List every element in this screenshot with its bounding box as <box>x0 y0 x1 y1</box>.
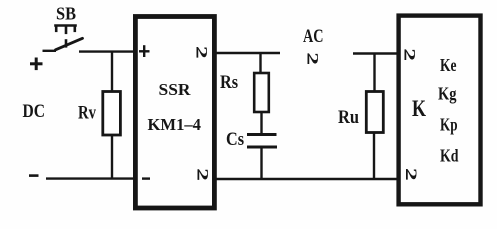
svg-text:K: K <box>412 96 426 121</box>
svg-text:Cs: Cs <box>226 130 244 150</box>
node: plus terminal <box>30 58 43 71</box>
svg-text:Kd: Kd <box>440 146 459 166</box>
wire: Rv top stem <box>111 52 113 92</box>
wire: Rs top stem <box>259 53 261 72</box>
svg-text:2: 2 <box>193 46 211 59</box>
resistor Ru <box>366 92 383 133</box>
svg-text:AC: AC <box>303 26 324 47</box>
resistor Rv <box>103 92 121 136</box>
wire: Rv bottom stem <box>111 135 113 179</box>
svg-text:Rv: Rv <box>78 104 97 124</box>
SSR module box KM1-4 <box>135 17 214 209</box>
resistor Rs <box>254 73 269 112</box>
wire: switch to SSR + terminal <box>79 50 135 52</box>
svg-text:KM1–4: KM1–4 <box>148 115 202 134</box>
svg-text:Ke: Ke <box>440 55 457 75</box>
svg-text:DC: DC <box>23 101 46 122</box>
wire: Cs bottom stem <box>260 148 262 179</box>
svg-text:SB: SB <box>56 4 76 24</box>
wire: Ru bottom stem <box>373 132 375 179</box>
capacitor Cs top plate <box>247 133 277 136</box>
svg-text:Kg: Kg <box>438 84 457 104</box>
svg-text:2: 2 <box>194 168 212 181</box>
pin + inside SSR <box>139 45 150 57</box>
capacitor Cs bottom plate <box>247 146 277 149</box>
pin - inside SSR <box>142 177 150 179</box>
wire: left stub to switch <box>43 50 57 52</box>
node: minus terminal <box>29 174 39 177</box>
wire: Ru top stem <box>373 54 375 92</box>
wire: Rs to Cs <box>260 112 262 134</box>
wire: bottom left <box>46 177 136 179</box>
switch SB lever (moving contact) <box>56 38 83 50</box>
svg-text:2: 2 <box>402 168 420 181</box>
switch SB pushbutton actuator <box>56 26 76 47</box>
svg-text:2: 2 <box>304 52 322 65</box>
svg-text:SSR: SSR <box>159 80 192 99</box>
wire: SSR output top <box>216 52 280 54</box>
svg-text:2: 2 <box>401 48 419 61</box>
relay K box <box>399 16 481 205</box>
wire: bottom middle <box>216 178 398 180</box>
svg-text:Kp: Kp <box>440 114 458 134</box>
svg-text:Rs: Rs <box>220 73 238 93</box>
svg-text:Ru: Ru <box>338 108 359 128</box>
wire: AC to K box <box>353 52 399 54</box>
